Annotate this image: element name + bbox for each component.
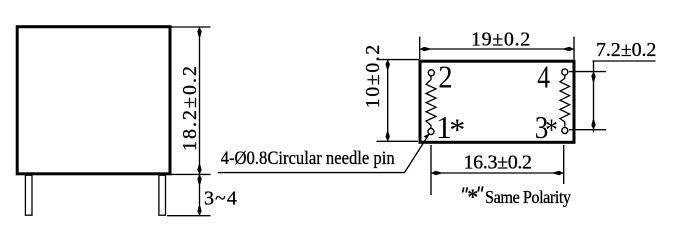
dimension 7.2±0.2 bbox=[569, 39, 656, 133]
note: same polarity bbox=[462, 184, 572, 209]
extension line: body top bbox=[171, 26, 211, 28]
svg-text:7.2±0.2: 7.2±0.2 bbox=[596, 39, 656, 61]
svg-text:2: 2 bbox=[438, 59, 452, 95]
svg-text:3~4: 3~4 bbox=[204, 188, 238, 210]
dimension 10±0.2 bbox=[362, 43, 419, 141]
svg-text:Same Polarity: Same Polarity bbox=[485, 187, 572, 207]
svg-text:10±0.2: 10±0.2 bbox=[362, 43, 384, 108]
winding between pins 2 and 1 bbox=[426, 76, 436, 129]
svg-text:*: * bbox=[449, 112, 465, 148]
extension line: body bottom bbox=[171, 173, 211, 175]
svg-text:*: * bbox=[467, 184, 478, 209]
dimension 3~4 bbox=[197, 174, 238, 215]
pin 2 circle bbox=[428, 70, 434, 76]
svg-text:4: 4 bbox=[537, 60, 550, 95]
dimension 16.3±0.2 bbox=[431, 145, 564, 195]
pin 1 circle bbox=[428, 128, 434, 134]
dimension 18.2±0.2 bbox=[179, 27, 202, 174]
svg-text:4-Ø0.8Circular needle pin: 4-Ø0.8Circular needle pin bbox=[221, 147, 395, 168]
svg-text:18.2±0.2: 18.2±0.2 bbox=[179, 64, 201, 151]
right pin (side view) bbox=[159, 175, 166, 215]
leader label: 4-Ø0.8 Circular needle pin bbox=[218, 133, 430, 172]
winding between pins 4 and 3 bbox=[560, 75, 570, 127]
svg-text:16.3±0.2: 16.3±0.2 bbox=[464, 152, 532, 174]
dimension 19±0.2 bbox=[420, 29, 574, 60]
pin layout box (bottom view) bbox=[420, 61, 574, 142]
transformer body (side view) bbox=[17, 27, 170, 174]
svg-text:*: * bbox=[545, 113, 557, 149]
left pin (side view) bbox=[25, 175, 32, 215]
pin 4 circle bbox=[562, 69, 568, 75]
svg-text:19±0.2: 19±0.2 bbox=[471, 29, 531, 51]
extension line: pin bottom bbox=[167, 215, 211, 217]
pin 3 circle bbox=[562, 127, 568, 133]
